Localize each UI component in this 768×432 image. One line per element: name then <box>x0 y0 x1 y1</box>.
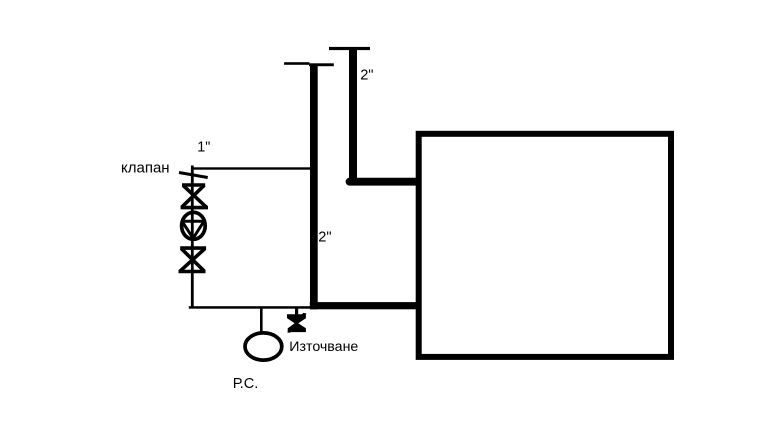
pipe A vertical 2" riser <box>310 65 318 309</box>
lower horizontal pipe to tank <box>310 302 418 309</box>
upper horizontal pipe to tank <box>350 178 418 186</box>
svg-text:клапан: клапан <box>121 160 170 177</box>
svg-text:Източване: Източване <box>289 339 358 355</box>
thin top 1" line <box>191 167 311 169</box>
valve V1 (gate valve bowtie) <box>181 185 208 208</box>
svg-text:1": 1" <box>197 140 210 156</box>
valve V2 (gate valve bowtie) <box>179 248 207 271</box>
svg-text:2": 2" <box>318 230 331 246</box>
svg-text:2": 2" <box>360 68 373 84</box>
thin left vertical line <box>191 166 194 308</box>
expansion vessel ellipse P.C. <box>245 333 282 360</box>
pipe A top cap <box>284 62 309 65</box>
drain valve stem <box>295 307 298 316</box>
diagonal tick mark <box>179 173 208 178</box>
pipe B top cap <box>329 47 370 50</box>
pipe B vertical 2" riser <box>349 50 357 186</box>
thin bottom line <box>189 306 310 309</box>
tank (large rectangle) <box>419 134 671 357</box>
drain valve (filled bowtie) <box>287 313 307 333</box>
svg-text:Р.С.: Р.С. <box>233 376 259 392</box>
stem to expansion vessel <box>260 309 263 332</box>
control valve (circle with triangle) <box>181 212 206 239</box>
